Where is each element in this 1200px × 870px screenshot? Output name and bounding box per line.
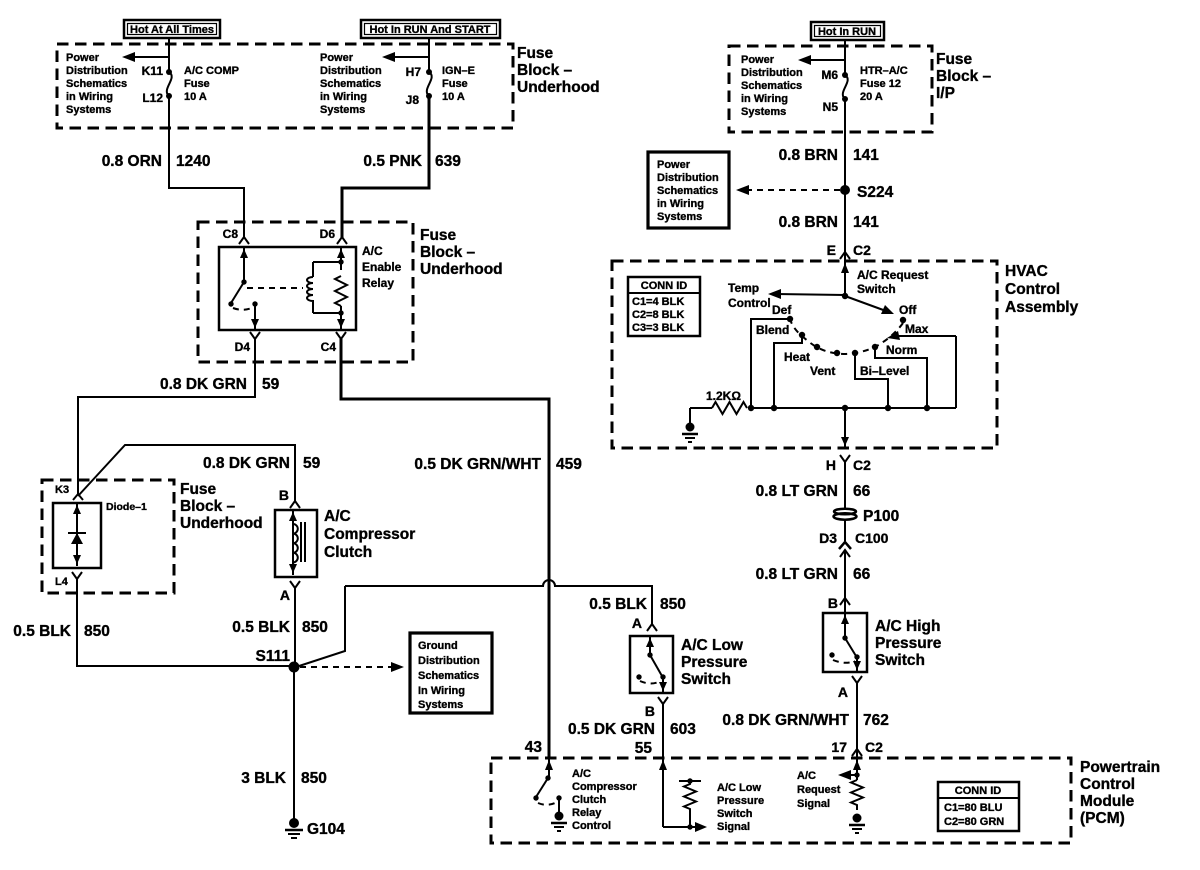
arrow to power distribution (middle)	[382, 52, 429, 62]
svg-text:A/C Request: A/C Request	[857, 268, 928, 282]
svg-text:Block –: Block –	[517, 62, 573, 79]
wire Norm to bus	[875, 347, 927, 408]
svg-text:In Wiring: In Wiring	[418, 685, 465, 697]
svg-text:850: 850	[660, 596, 686, 613]
arrow to power distribution (left)	[122, 52, 169, 62]
contact Vent	[834, 350, 840, 356]
svg-text:Hot In RUN: Hot In RUN	[818, 26, 876, 38]
svg-text:0.8 DK GRN: 0.8 DK GRN	[203, 455, 290, 472]
switch wiper node	[842, 293, 848, 299]
svg-text:in Wiring: in Wiring	[657, 198, 704, 210]
svg-text:850: 850	[302, 619, 328, 636]
ground distribution schematics box	[410, 633, 492, 713]
A/C low pressure switch box	[630, 636, 673, 693]
svg-text:HTR–A/C: HTR–A/C	[860, 65, 908, 77]
wire 0.8 LT GRN 66 (lower)	[844, 552, 846, 613]
diode box	[53, 503, 101, 568]
dashed rotary contact arc	[790, 319, 903, 354]
svg-text:A: A	[280, 587, 290, 603]
svg-text:603: 603	[670, 721, 696, 738]
fuse value label	[442, 65, 475, 103]
svg-text:G104: G104	[307, 821, 345, 838]
Hot In RUN box	[811, 22, 884, 40]
svg-text:A/C: A/C	[572, 768, 591, 780]
svg-text:Block –: Block –	[420, 244, 476, 261]
svg-text:Schematics: Schematics	[66, 78, 127, 90]
svg-text:A/C: A/C	[324, 508, 351, 525]
relay coil	[307, 259, 344, 315]
svg-text:C1=80 BLU: C1=80 BLU	[944, 802, 1002, 814]
svg-text:P100: P100	[863, 508, 899, 525]
HVAC control assembly dashed box	[612, 261, 997, 448]
svg-text:Assembly: Assembly	[1005, 299, 1079, 316]
wire 3 BLK 850 from S111 to G104	[293, 667, 295, 822]
svg-text:K3: K3	[55, 484, 69, 496]
contact Bi-Level	[852, 350, 858, 356]
svg-text:Heat: Heat	[784, 350, 810, 364]
svg-text:C3=3 BLK: C3=3 BLK	[632, 322, 684, 334]
fuse block I/P dashed box	[729, 46, 932, 132]
svg-text:Norm: Norm	[886, 343, 917, 357]
svg-text:Request: Request	[797, 784, 841, 796]
svg-text:10 A: 10 A	[184, 91, 207, 103]
relay resistor	[335, 247, 347, 330]
svg-text:Control: Control	[1005, 281, 1060, 298]
powertrain control module dashed box	[491, 758, 1071, 843]
svg-text:Power: Power	[66, 52, 100, 64]
svg-text:459: 459	[556, 456, 582, 473]
svg-text:Temp: Temp	[728, 281, 759, 295]
svg-text:H: H	[826, 457, 836, 473]
svg-text:Switch: Switch	[681, 671, 731, 688]
wire 0.5 PNK 639 (thick)	[342, 96, 429, 238]
svg-text:141: 141	[853, 214, 879, 231]
A/C compressor clutch box	[275, 510, 317, 577]
svg-text:20 A: 20 A	[860, 91, 883, 103]
svg-text:in Wiring: in Wiring	[66, 91, 113, 103]
pass-through grommet P100	[834, 508, 900, 525]
label A/C Request Signal	[797, 770, 841, 810]
wire 0.8 BRN 141 (lower)	[844, 190, 846, 261]
svg-text:Relay: Relay	[362, 276, 394, 290]
svg-text:C2: C2	[865, 739, 883, 755]
svg-text:E: E	[827, 242, 836, 258]
fuse block underhood (top) dashed box	[57, 44, 513, 128]
fuse HTR-A/C 20A	[842, 72, 848, 102]
svg-text:66: 66	[853, 566, 871, 583]
svg-text:A/C COMP: A/C COMP	[184, 65, 239, 77]
ground (HVAC)	[682, 408, 698, 442]
svg-text:0.8 BRN: 0.8 BRN	[779, 214, 838, 231]
svg-text:Fuse: Fuse	[442, 78, 468, 90]
svg-text:639: 639	[435, 153, 461, 170]
power distribution note text (middle)	[320, 52, 382, 116]
label A/C Compressor Clutch Relay Control	[572, 768, 638, 832]
svg-text:A: A	[838, 684, 848, 700]
svg-text:C1=4 BLK: C1=4 BLK	[632, 296, 684, 308]
svg-text:Blend: Blend	[756, 323, 789, 337]
wire 0.5 DK GRN 603 to PCM	[662, 704, 664, 758]
svg-text:Fuse: Fuse	[517, 45, 554, 62]
svg-text:Switch: Switch	[875, 652, 925, 669]
svg-text:D3: D3	[819, 530, 837, 546]
svg-text:HVAC: HVAC	[1005, 263, 1048, 280]
svg-text:Systems: Systems	[741, 106, 786, 118]
svg-text:L4: L4	[55, 576, 69, 588]
resistor 1.2K ohm	[690, 389, 747, 414]
svg-text:55: 55	[635, 740, 653, 757]
svg-text:Enable: Enable	[362, 260, 402, 274]
svg-text:Pressure: Pressure	[875, 635, 942, 652]
arrow to Temp Control	[728, 281, 845, 310]
svg-text:K11: K11	[142, 64, 164, 78]
svg-text:Schematics: Schematics	[657, 185, 718, 197]
svg-text:0.8 DK GRN: 0.8 DK GRN	[160, 376, 247, 393]
svg-text:A/C: A/C	[362, 244, 383, 258]
wire 0.8 DK GRN/WHT 762 to PCM	[856, 683, 858, 758]
node S111	[289, 662, 300, 673]
svg-text:Systems: Systems	[418, 699, 463, 711]
wire 0.5 DK GRN/WHT 459 from C4 (thick)	[341, 339, 549, 758]
svg-text:B: B	[828, 595, 838, 611]
Hot At All Times box	[124, 20, 220, 38]
svg-text:Off: Off	[899, 303, 917, 317]
high pressure switch contacts	[829, 613, 861, 672]
node S224	[840, 185, 850, 195]
svg-text:Signal: Signal	[797, 798, 830, 810]
svg-text:Schematics: Schematics	[741, 80, 802, 92]
svg-text:Underhood: Underhood	[180, 515, 263, 532]
A/C compressor clutch relay control switch	[533, 758, 567, 831]
svg-text:Hot At All Times: Hot At All Times	[130, 24, 214, 36]
fuse value label	[860, 65, 908, 103]
svg-text:Control: Control	[572, 820, 611, 832]
contact Off	[900, 317, 906, 323]
svg-text:0.8 ORN: 0.8 ORN	[102, 153, 162, 170]
svg-text:in Wiring: in Wiring	[320, 91, 367, 103]
ground wire to low pressure switch with hop over wire 459	[345, 580, 652, 624]
fuse block underhood (diode) dashed box	[42, 480, 174, 593]
svg-text:Distribution: Distribution	[657, 172, 719, 184]
svg-text:H7: H7	[406, 65, 422, 79]
svg-text:D6: D6	[320, 227, 336, 241]
svg-text:1.2KΩ: 1.2KΩ	[706, 389, 741, 403]
svg-text:Schematics: Schematics	[320, 78, 381, 90]
svg-text:Distribution: Distribution	[418, 655, 480, 667]
svg-text:Power: Power	[741, 54, 775, 66]
dashed arrow S111 to ground distribution box	[300, 662, 404, 672]
svg-text:M6: M6	[821, 68, 838, 82]
svg-text:Powertrain: Powertrain	[1080, 759, 1160, 776]
svg-text:Signal: Signal	[717, 821, 750, 833]
svg-text:Ground: Ground	[418, 640, 458, 652]
wiper arrow toward Off	[845, 296, 894, 314]
svg-text:Systems: Systems	[657, 211, 702, 223]
power distribution schematics box (solid)	[648, 152, 729, 228]
ground G104	[285, 818, 345, 838]
clutch coil	[289, 510, 305, 575]
fuse block underhood (relay) dashed box	[198, 222, 413, 362]
svg-text:850: 850	[301, 770, 327, 787]
svg-text:0.8 LT GRN: 0.8 LT GRN	[756, 483, 838, 500]
fuse A/C COMP 10A	[166, 69, 172, 99]
svg-text:S224: S224	[857, 184, 894, 201]
wire to C100	[844, 519, 846, 541]
svg-text:Systems: Systems	[66, 104, 111, 116]
svg-text:Distribution: Distribution	[66, 65, 128, 77]
svg-text:Module: Module	[1080, 793, 1135, 810]
svg-text:10 A: 10 A	[442, 91, 465, 103]
svg-text:Block –: Block –	[180, 498, 236, 515]
svg-text:Block –: Block –	[936, 68, 992, 85]
A/C enable relay box	[219, 247, 356, 330]
wire Blend to bus	[774, 335, 802, 408]
svg-text:762: 762	[863, 712, 889, 729]
label A/C Low Pressure Switch Signal	[717, 782, 764, 833]
svg-text:C8: C8	[223, 227, 239, 241]
A/C low pressure switch signal circuit	[659, 758, 707, 832]
wire Bi-Level to bus	[855, 353, 888, 408]
svg-text:Distribution: Distribution	[320, 65, 382, 77]
svg-text:3 BLK: 3 BLK	[241, 770, 287, 787]
wire branch from ground bus to S111	[296, 586, 345, 667]
wire from Hot In RUN into fuse block	[428, 38, 430, 71]
svg-text:0.8 LT GRN: 0.8 LT GRN	[756, 566, 838, 583]
wire from Hot In RUN into fuse	[844, 40, 846, 74]
svg-text:Underhood: Underhood	[517, 79, 600, 96]
svg-text:L12: L12	[142, 91, 163, 105]
svg-text:A: A	[632, 615, 642, 631]
wire from Hot At All Times into fuse block	[168, 38, 170, 71]
wire branch K3 to compressor clutch B (0.8 DK GRN 59)	[78, 445, 295, 502]
wire Def to bus	[751, 319, 790, 408]
wire 0.8 LT GRN 66 (upper)	[844, 462, 846, 509]
svg-text:S111: S111	[256, 648, 291, 665]
contact Def	[787, 316, 793, 322]
svg-text:Systems: Systems	[320, 104, 365, 116]
svg-text:Underhood: Underhood	[420, 261, 503, 278]
svg-text:Diode–1: Diode–1	[106, 501, 147, 513]
contact Max (arrow)	[887, 322, 956, 340]
svg-text:Pressure: Pressure	[681, 654, 748, 671]
A/C high pressure switch box	[823, 613, 867, 672]
relay mechanical link (dashed)	[247, 287, 303, 289]
svg-text:0.5 PNK: 0.5 PNK	[363, 153, 422, 170]
svg-text:(PCM): (PCM)	[1080, 810, 1125, 827]
svg-text:B: B	[645, 703, 655, 719]
svg-text:D4: D4	[235, 340, 251, 354]
svg-text:59: 59	[262, 376, 280, 393]
arrow to power distribution (I/P)	[798, 55, 845, 65]
svg-text:A/C: A/C	[797, 770, 816, 782]
svg-text:B: B	[279, 487, 289, 503]
power distribution note text (I/P)	[741, 54, 803, 118]
wire 0.5 BLK 850 from L4 to S111	[77, 579, 292, 666]
wire 0.5 BLK 850 from A to S111	[294, 588, 296, 666]
svg-text:Power: Power	[320, 52, 354, 64]
svg-text:C2=8 BLK: C2=8 BLK	[632, 309, 684, 321]
wire into A/C request switch	[841, 261, 849, 296]
svg-text:0.8 DK GRN/WHT: 0.8 DK GRN/WHT	[722, 712, 849, 729]
svg-text:Relay: Relay	[572, 807, 602, 819]
svg-text:Switch: Switch	[717, 808, 753, 820]
contact Blend	[799, 332, 805, 338]
svg-text:Fuse 12: Fuse 12	[860, 78, 901, 90]
CONN ID box (HVAC)	[628, 277, 700, 336]
svg-text:A/C Low: A/C Low	[717, 782, 761, 794]
svg-text:J8: J8	[406, 93, 420, 107]
svg-text:Def: Def	[772, 303, 792, 317]
svg-text:CONN ID: CONN ID	[955, 785, 1002, 797]
svg-text:C2=80 GRN: C2=80 GRN	[944, 816, 1004, 828]
contact Norm	[872, 344, 878, 350]
wire Max to bus	[955, 336, 957, 408]
svg-text:0.8 BRN: 0.8 BRN	[779, 147, 838, 164]
svg-text:17: 17	[831, 739, 847, 755]
svg-text:Fuse: Fuse	[936, 51, 973, 68]
svg-text:Compressor: Compressor	[324, 526, 415, 543]
svg-text:Control: Control	[728, 296, 771, 310]
svg-text:Pressure: Pressure	[717, 795, 764, 807]
svg-text:66: 66	[853, 483, 871, 500]
A/C request signal circuit	[838, 758, 865, 833]
svg-text:Fuse: Fuse	[184, 78, 210, 90]
svg-text:in Wiring: in Wiring	[741, 93, 788, 105]
fuse value label	[184, 65, 239, 103]
svg-text:A/C Low: A/C Low	[681, 637, 744, 654]
svg-text:Clutch: Clutch	[572, 794, 607, 806]
svg-text:Control: Control	[1080, 776, 1135, 793]
svg-text:Distribution: Distribution	[741, 67, 803, 79]
svg-text:Clutch: Clutch	[324, 544, 372, 561]
power distribution note text (left)	[66, 52, 128, 116]
low pressure switch contacts	[636, 636, 667, 693]
svg-text:Fuse: Fuse	[180, 481, 217, 498]
svg-text:Schematics: Schematics	[418, 670, 479, 682]
svg-text:Compressor: Compressor	[572, 781, 638, 793]
svg-text:850: 850	[84, 623, 110, 640]
svg-text:1240: 1240	[176, 153, 210, 170]
svg-text:141: 141	[853, 147, 879, 164]
svg-text:Max: Max	[905, 322, 929, 336]
svg-text:59: 59	[303, 455, 321, 472]
svg-text:IGN–E: IGN–E	[442, 65, 475, 77]
contact Heat	[814, 344, 820, 350]
svg-text:0.5 BLK: 0.5 BLK	[13, 623, 72, 640]
svg-text:0.5 DK GRN: 0.5 DK GRN	[568, 721, 655, 738]
svg-text:43: 43	[525, 739, 543, 756]
svg-text:C2: C2	[853, 457, 871, 473]
CONN ID box (PCM)	[938, 782, 1019, 831]
svg-text:Bi–Level: Bi–Level	[860, 364, 909, 378]
wire 0.8 DK GRN 59 from D4	[78, 339, 255, 495]
wire 0.8 ORN 1240	[169, 96, 244, 238]
svg-text:CONN ID: CONN ID	[641, 280, 688, 292]
svg-text:C2: C2	[853, 242, 871, 258]
output wire from bus to H pin	[841, 405, 849, 448]
svg-text:Power: Power	[657, 159, 691, 171]
connector C100 chevrons	[839, 542, 851, 557]
bus wire	[748, 407, 956, 409]
Hot In RUN And START box	[361, 20, 500, 38]
svg-text:Hot In RUN And START: Hot In RUN And START	[370, 24, 491, 36]
fuse IGN-E 10A	[426, 69, 432, 99]
svg-text:0.5 BLK: 0.5 BLK	[232, 619, 291, 636]
svg-text:Switch: Switch	[857, 282, 896, 296]
diode symbol	[68, 503, 86, 566]
svg-text:0.5 DK GRN/WHT: 0.5 DK GRN/WHT	[414, 456, 541, 473]
relay switch arm	[228, 247, 259, 330]
svg-text:C100: C100	[855, 530, 889, 546]
svg-text:C4: C4	[321, 340, 337, 354]
svg-text:Vent: Vent	[810, 364, 835, 378]
svg-text:0.5 BLK: 0.5 BLK	[589, 596, 648, 613]
dashed arrow S224 to power distribution box	[736, 185, 840, 195]
wire 0.8 BRN 141 (upper)	[844, 99, 846, 190]
svg-text:A/C High: A/C High	[875, 618, 940, 635]
svg-text:I/P: I/P	[936, 85, 955, 102]
svg-text:N5: N5	[823, 100, 839, 114]
svg-text:Fuse: Fuse	[420, 227, 457, 244]
